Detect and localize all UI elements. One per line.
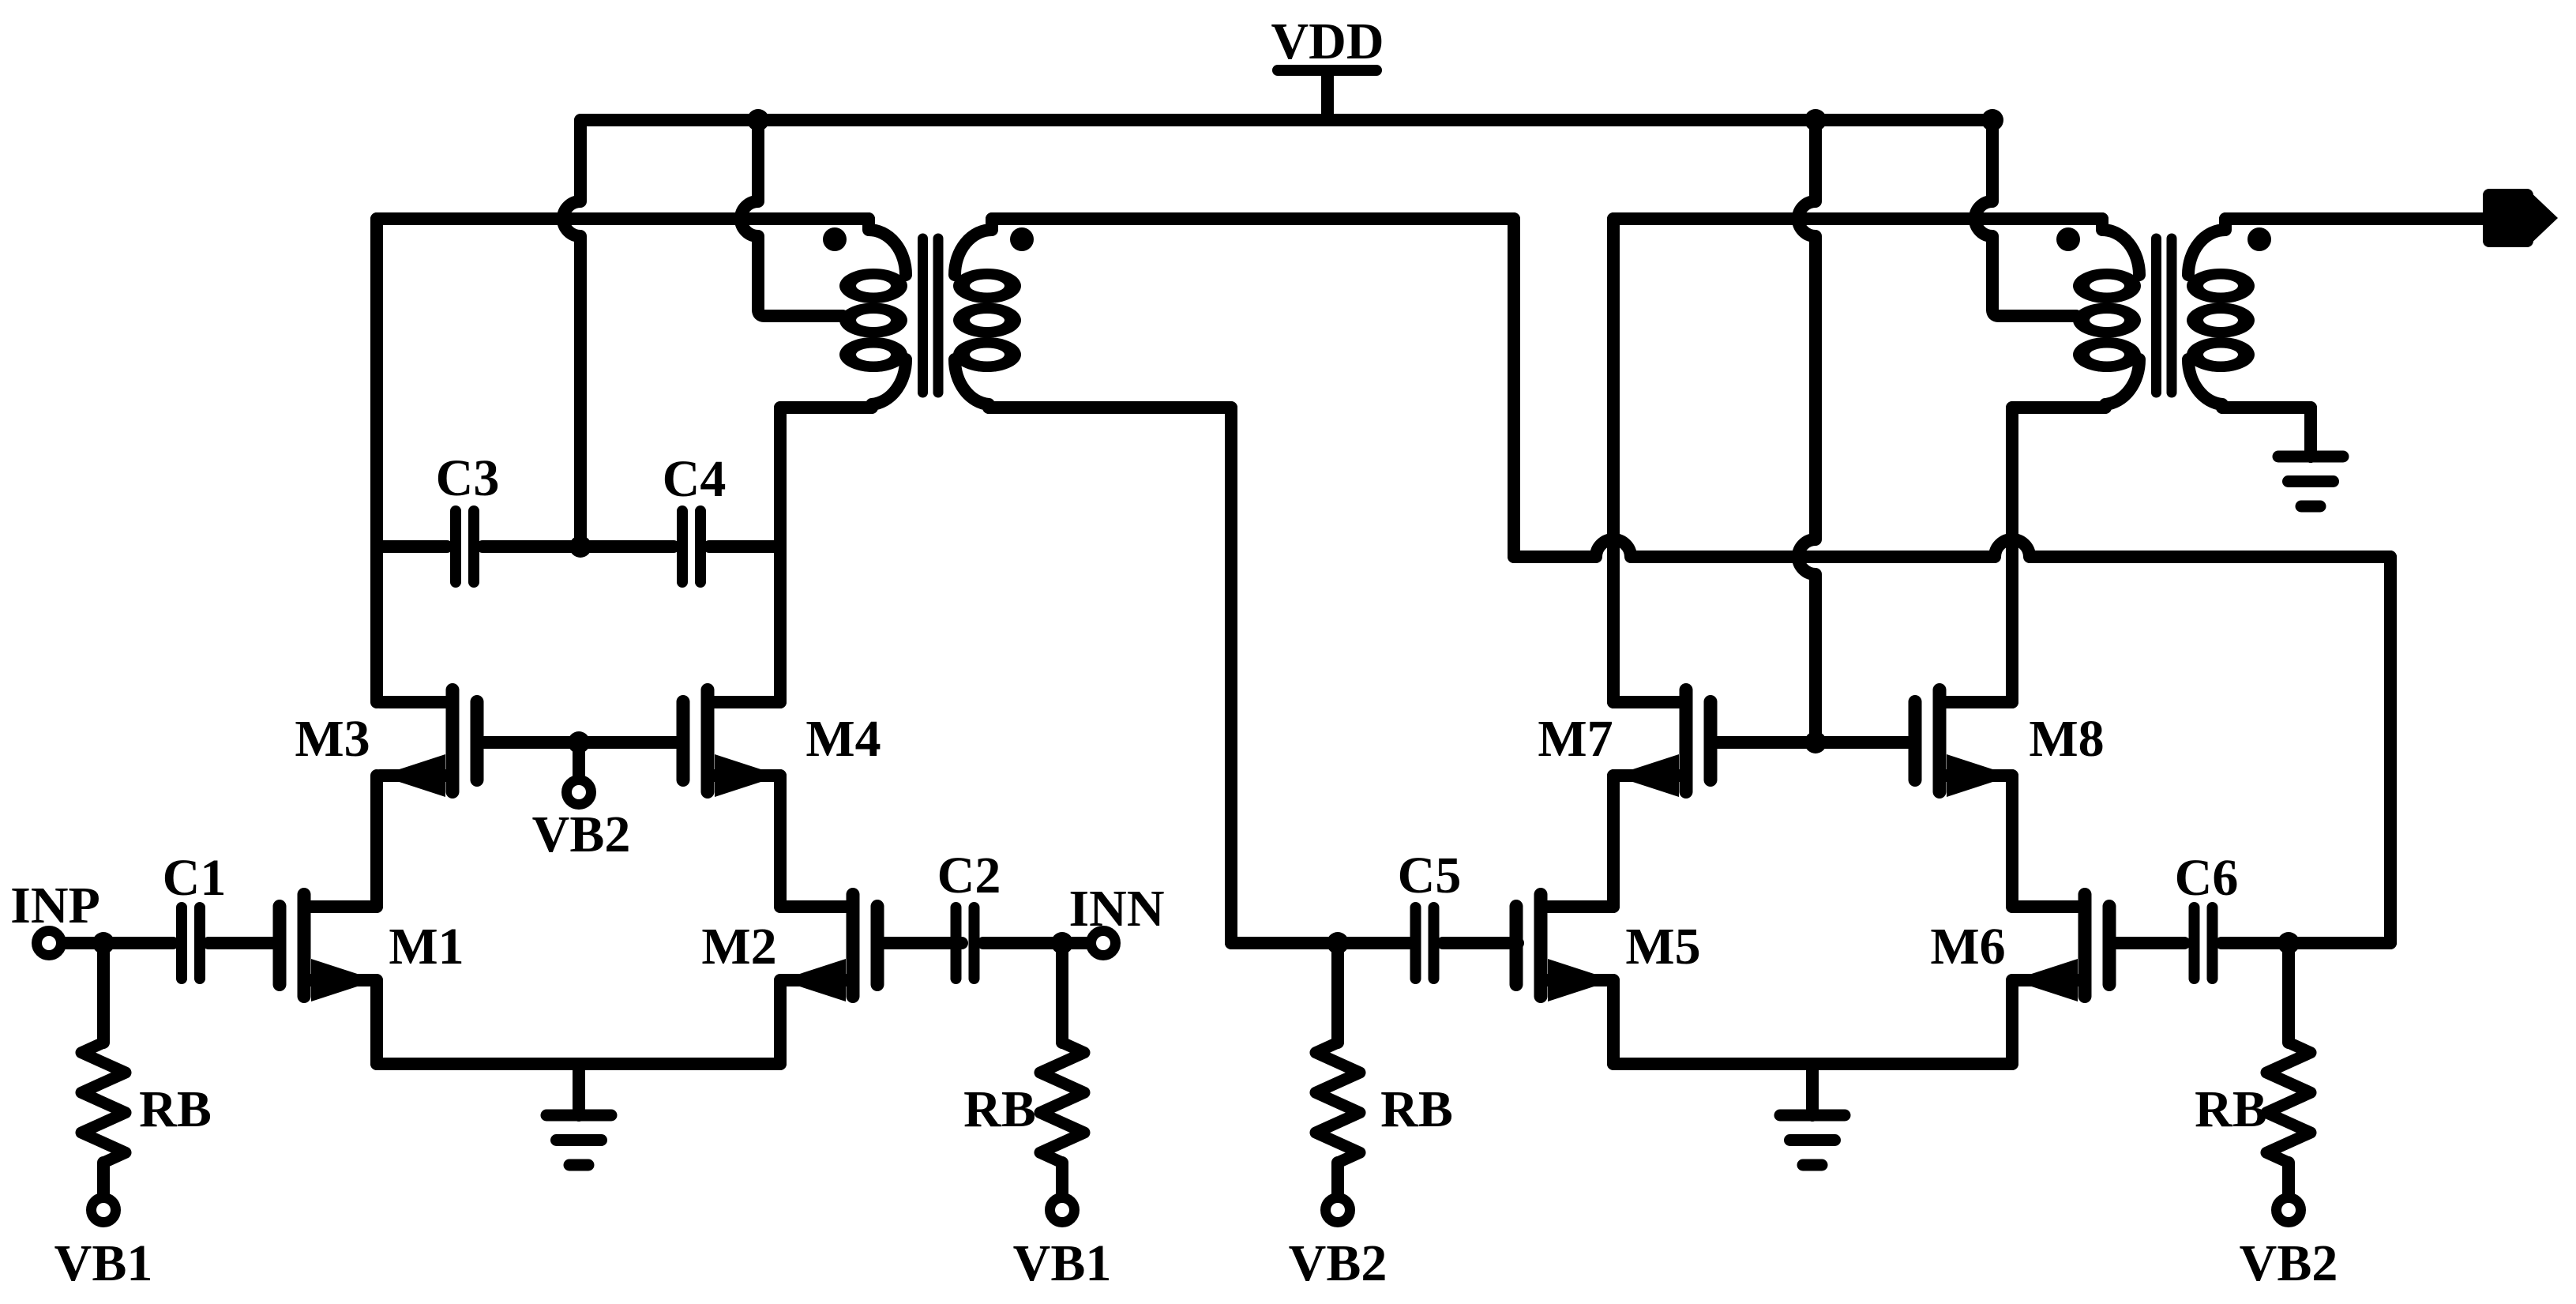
INN input terminal — [1068, 880, 1164, 956]
wire C3/C4 rail left segment — [377, 540, 447, 553]
RB label (C5 bias) — [1380, 1080, 1453, 1138]
wire stage-1 source rail — [377, 980, 780, 1064]
wire RB to VB2 terminal (C6) — [2282, 1163, 2295, 1193]
svg-text:C1: C1 — [163, 849, 227, 907]
wire T2 secondary bottom lead — [2222, 408, 2311, 457]
transformer T1 primary winding — [839, 219, 907, 408]
svg-text:C3: C3 — [436, 449, 500, 507]
transistor M3 — [295, 690, 477, 798]
VB1 bias terminal (left) — [54, 1198, 153, 1293]
transistor M7 — [1538, 690, 1710, 798]
wire bus to T1 center tap (hops T1 primary lead) — [741, 120, 843, 316]
wire M2 gate to C2 — [877, 937, 962, 949]
svg-text:INN: INN — [1068, 880, 1164, 938]
svg-text:VB2: VB2 — [532, 806, 631, 863]
capacitor C5 — [1398, 847, 1462, 979]
wire T2 secondary top lead to output — [2225, 212, 2488, 225]
T2 secondary phase dot — [2247, 227, 2271, 251]
wire INN junction to RB — [1056, 943, 1068, 1043]
T1 secondary phase dot — [1010, 227, 1034, 251]
svg-text:VDD: VDD — [1271, 13, 1384, 70]
wire M8 source to M6 drain — [2006, 776, 2018, 907]
node junction on bus (cascode gate branch) — [1804, 109, 1827, 131]
wire C3 to junction — [483, 540, 580, 553]
VB2 bias terminal (C5) — [1289, 1198, 1388, 1293]
capacitor C4 — [663, 450, 727, 582]
svg-text:M6: M6 — [1930, 918, 2005, 975]
wire C5 to M5 gate — [1443, 937, 1518, 949]
transistor M1 — [280, 895, 464, 1002]
capacitor C3 — [436, 449, 500, 582]
transformer T2 core — [2157, 239, 2172, 393]
capacitor C2 — [937, 847, 1001, 979]
wire bus to T2 center tap (hops line) — [1975, 120, 2076, 316]
svg-text:M7: M7 — [1538, 710, 1613, 768]
wire T1 secondary top lead down to 2nd-stage rail — [992, 219, 1514, 557]
svg-text:M1: M1 — [389, 918, 464, 975]
transformer T1 secondary winding — [953, 219, 1021, 408]
transformer T1 core — [923, 239, 939, 393]
output port arrow — [2483, 189, 2558, 247]
node junction M3/M4 gates — [568, 731, 590, 753]
svg-text:VB2: VB2 — [2240, 1234, 2338, 1292]
node junction M7/M8 gates — [1804, 731, 1827, 753]
capacitor C1 — [163, 849, 227, 979]
ground at stage-2 sources — [1780, 1064, 1845, 1165]
svg-text:VB1: VB1 — [54, 1234, 153, 1292]
VB1 bias terminal (mid) — [1013, 1198, 1112, 1293]
wire M7 source to M5 drain — [1607, 776, 1620, 907]
transistor M6 — [1930, 895, 2109, 1002]
wire junction to C4 — [580, 540, 674, 553]
transistor M2 — [701, 895, 877, 1002]
capacitor C6 — [2175, 849, 2239, 979]
svg-text:C5: C5 — [1398, 847, 1462, 904]
transistor M8 — [1915, 690, 2105, 798]
svg-text:M5: M5 — [1625, 918, 1700, 975]
wire C1 to M1 gate — [208, 937, 280, 949]
svg-text:INP: INP — [10, 877, 100, 934]
wire stage-2 source rail — [1613, 980, 2012, 1064]
wire VDD bus — [580, 114, 1992, 126]
svg-text:RB: RB — [1380, 1080, 1453, 1138]
resistor RB (INN bias) — [963, 1043, 1084, 1163]
resistor RB (C5 bias) — [1316, 1043, 1360, 1163]
transformer T2 primary winding — [2073, 219, 2141, 408]
wire M7/M8 gate rail — [1710, 736, 1915, 749]
svg-text:C4: C4 — [663, 450, 727, 508]
resistor RB (INP bias) — [81, 1043, 212, 1163]
VB2 bias terminal at M3/M4 gates — [532, 742, 631, 863]
wire T1 secondary bottom lead to stage-2 input — [989, 408, 1410, 943]
wire RB to VB1 terminal — [97, 1163, 110, 1193]
node junction at bus right end — [1981, 109, 2003, 131]
wire INP junction to RB — [97, 943, 110, 1043]
wire M3/M4 gate rail — [477, 736, 681, 749]
wire C5 junction to RB — [1331, 943, 1344, 1043]
RB label (C6 bias) — [2195, 1080, 2267, 1138]
resistor RB (C6 bias) — [2266, 1043, 2311, 1163]
svg-text:M4: M4 — [805, 710, 881, 768]
wire INP to C1 — [66, 937, 173, 949]
ground at stage-1 sources — [546, 1064, 611, 1165]
wire bus to C3/C4 rail (hops T1 primary lead) — [563, 120, 580, 547]
svg-text:VB2: VB2 — [1289, 1234, 1388, 1292]
VDD power symbol — [1271, 13, 1384, 120]
wire M7 drain to T2 primary top lead — [1613, 219, 2102, 702]
wire C6 to junction — [2221, 937, 2289, 949]
wire T1 primary bottom lead / M4 drain column — [780, 408, 872, 702]
transformer T2 secondary winding — [2187, 219, 2255, 408]
svg-text:RB: RB — [139, 1080, 212, 1138]
node junction INP/RB — [92, 932, 115, 954]
T2 primary phase dot — [2056, 227, 2080, 251]
svg-text:RB: RB — [2195, 1080, 2267, 1138]
wire RB to VB1 terminal (mid) — [1056, 1163, 1068, 1193]
node junction on bus (center-tap branch T1) — [747, 109, 769, 131]
transistor M4 — [683, 690, 881, 798]
svg-text:C2: C2 — [937, 847, 1001, 904]
VB2 bias terminal (C6) — [2240, 1198, 2338, 1293]
wire M4 source to M2 drain — [774, 776, 787, 907]
svg-text:C6: C6 — [2175, 849, 2239, 907]
svg-text:M2: M2 — [701, 918, 776, 975]
wire bus to M7/M8 gates (hops two lines) — [1798, 120, 1816, 742]
node junction C5/RB — [1327, 932, 1349, 954]
INP input terminal — [10, 877, 100, 956]
svg-text:VB1: VB1 — [1013, 1234, 1112, 1292]
svg-text:RB: RB — [963, 1080, 1036, 1138]
node junction C3/C4 rail — [569, 536, 591, 558]
ground at T2 secondary — [2278, 450, 2343, 506]
wire T1 primary top lead to M3 drain column — [377, 219, 869, 702]
wire RB to VB2 terminal (C5) — [1331, 1163, 1344, 1193]
wire stage-2 coupling rail (hops M7/M8 drain columns) — [1514, 539, 2390, 943]
wire C4 to M4 drain column — [709, 540, 780, 553]
wire C6 junction to RB — [2282, 943, 2295, 1043]
wire C2 to INN — [983, 937, 1087, 949]
node junction INN/RB — [1051, 932, 1073, 954]
T1 primary phase dot — [823, 227, 847, 251]
wire M6 gate to C6 — [2109, 937, 2184, 949]
svg-text:M8: M8 — [2029, 710, 2104, 768]
wire T2 primary bottom lead / M8 drain column — [2012, 408, 2105, 702]
node junction C6/RB — [2277, 932, 2300, 954]
transistor M5 — [1516, 895, 1701, 1002]
wire M3 source to M1 drain — [370, 776, 383, 907]
svg-text:M3: M3 — [295, 710, 370, 768]
